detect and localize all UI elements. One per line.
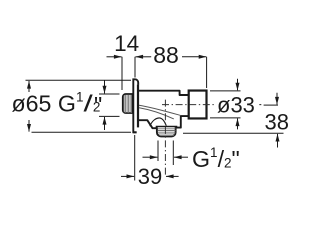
svg-text:88: 88 xyxy=(153,42,179,68)
dim 14: arrows xyxy=(107,56,122,58)
svg-text:ø65 G1/2": ø65 G1/2" xyxy=(12,89,103,118)
dim o33: extension lines xyxy=(210,90,241,92)
valve body underside left xyxy=(139,120,156,128)
outlet nut top lip xyxy=(156,126,178,128)
flange plate xyxy=(133,79,138,132)
wave over outlet xyxy=(150,118,167,126)
dim 39: extension line from flange xyxy=(134,135,136,181)
dim 38: top reference line at axis xyxy=(264,104,278,106)
dim o65: arrows xyxy=(28,81,30,92)
push button xyxy=(189,91,207,119)
outlet thread dia: extension lines xyxy=(157,141,159,162)
dim 88: line and arrow xyxy=(150,56,153,58)
inlet thread dia: arrows xyxy=(104,81,106,94)
body swoosh curves xyxy=(139,105,180,115)
outlet axis vertical xyxy=(164,100,166,177)
valve body outline bottom right xyxy=(176,116,188,128)
dim 39: arrows xyxy=(121,175,134,177)
dim o33: arrows xyxy=(237,79,239,91)
outlet thread dia: arrows xyxy=(143,156,158,158)
svg-text:ø33: ø33 xyxy=(217,92,255,117)
svg-text:38: 38 xyxy=(265,109,289,134)
dim 88: extension line at button right xyxy=(206,57,208,88)
inlet thread dia: extension lines xyxy=(99,93,120,95)
flange back edge xyxy=(137,85,139,128)
center axis horizontal xyxy=(162,104,216,106)
inlet thread G1/2 xyxy=(123,94,133,113)
valve body outline top xyxy=(139,91,189,95)
dim o65: extension lines xyxy=(26,79,132,81)
svg-text:G1/2": G1/2" xyxy=(192,145,240,172)
flange bottom cap xyxy=(133,131,137,133)
outlet nut thread xyxy=(157,127,176,136)
svg-text:39: 39 xyxy=(138,164,162,189)
dim 38: bottom reference line xyxy=(183,132,284,134)
svg-text:14: 14 xyxy=(114,31,139,56)
dim 14: extension lines xyxy=(121,57,123,90)
